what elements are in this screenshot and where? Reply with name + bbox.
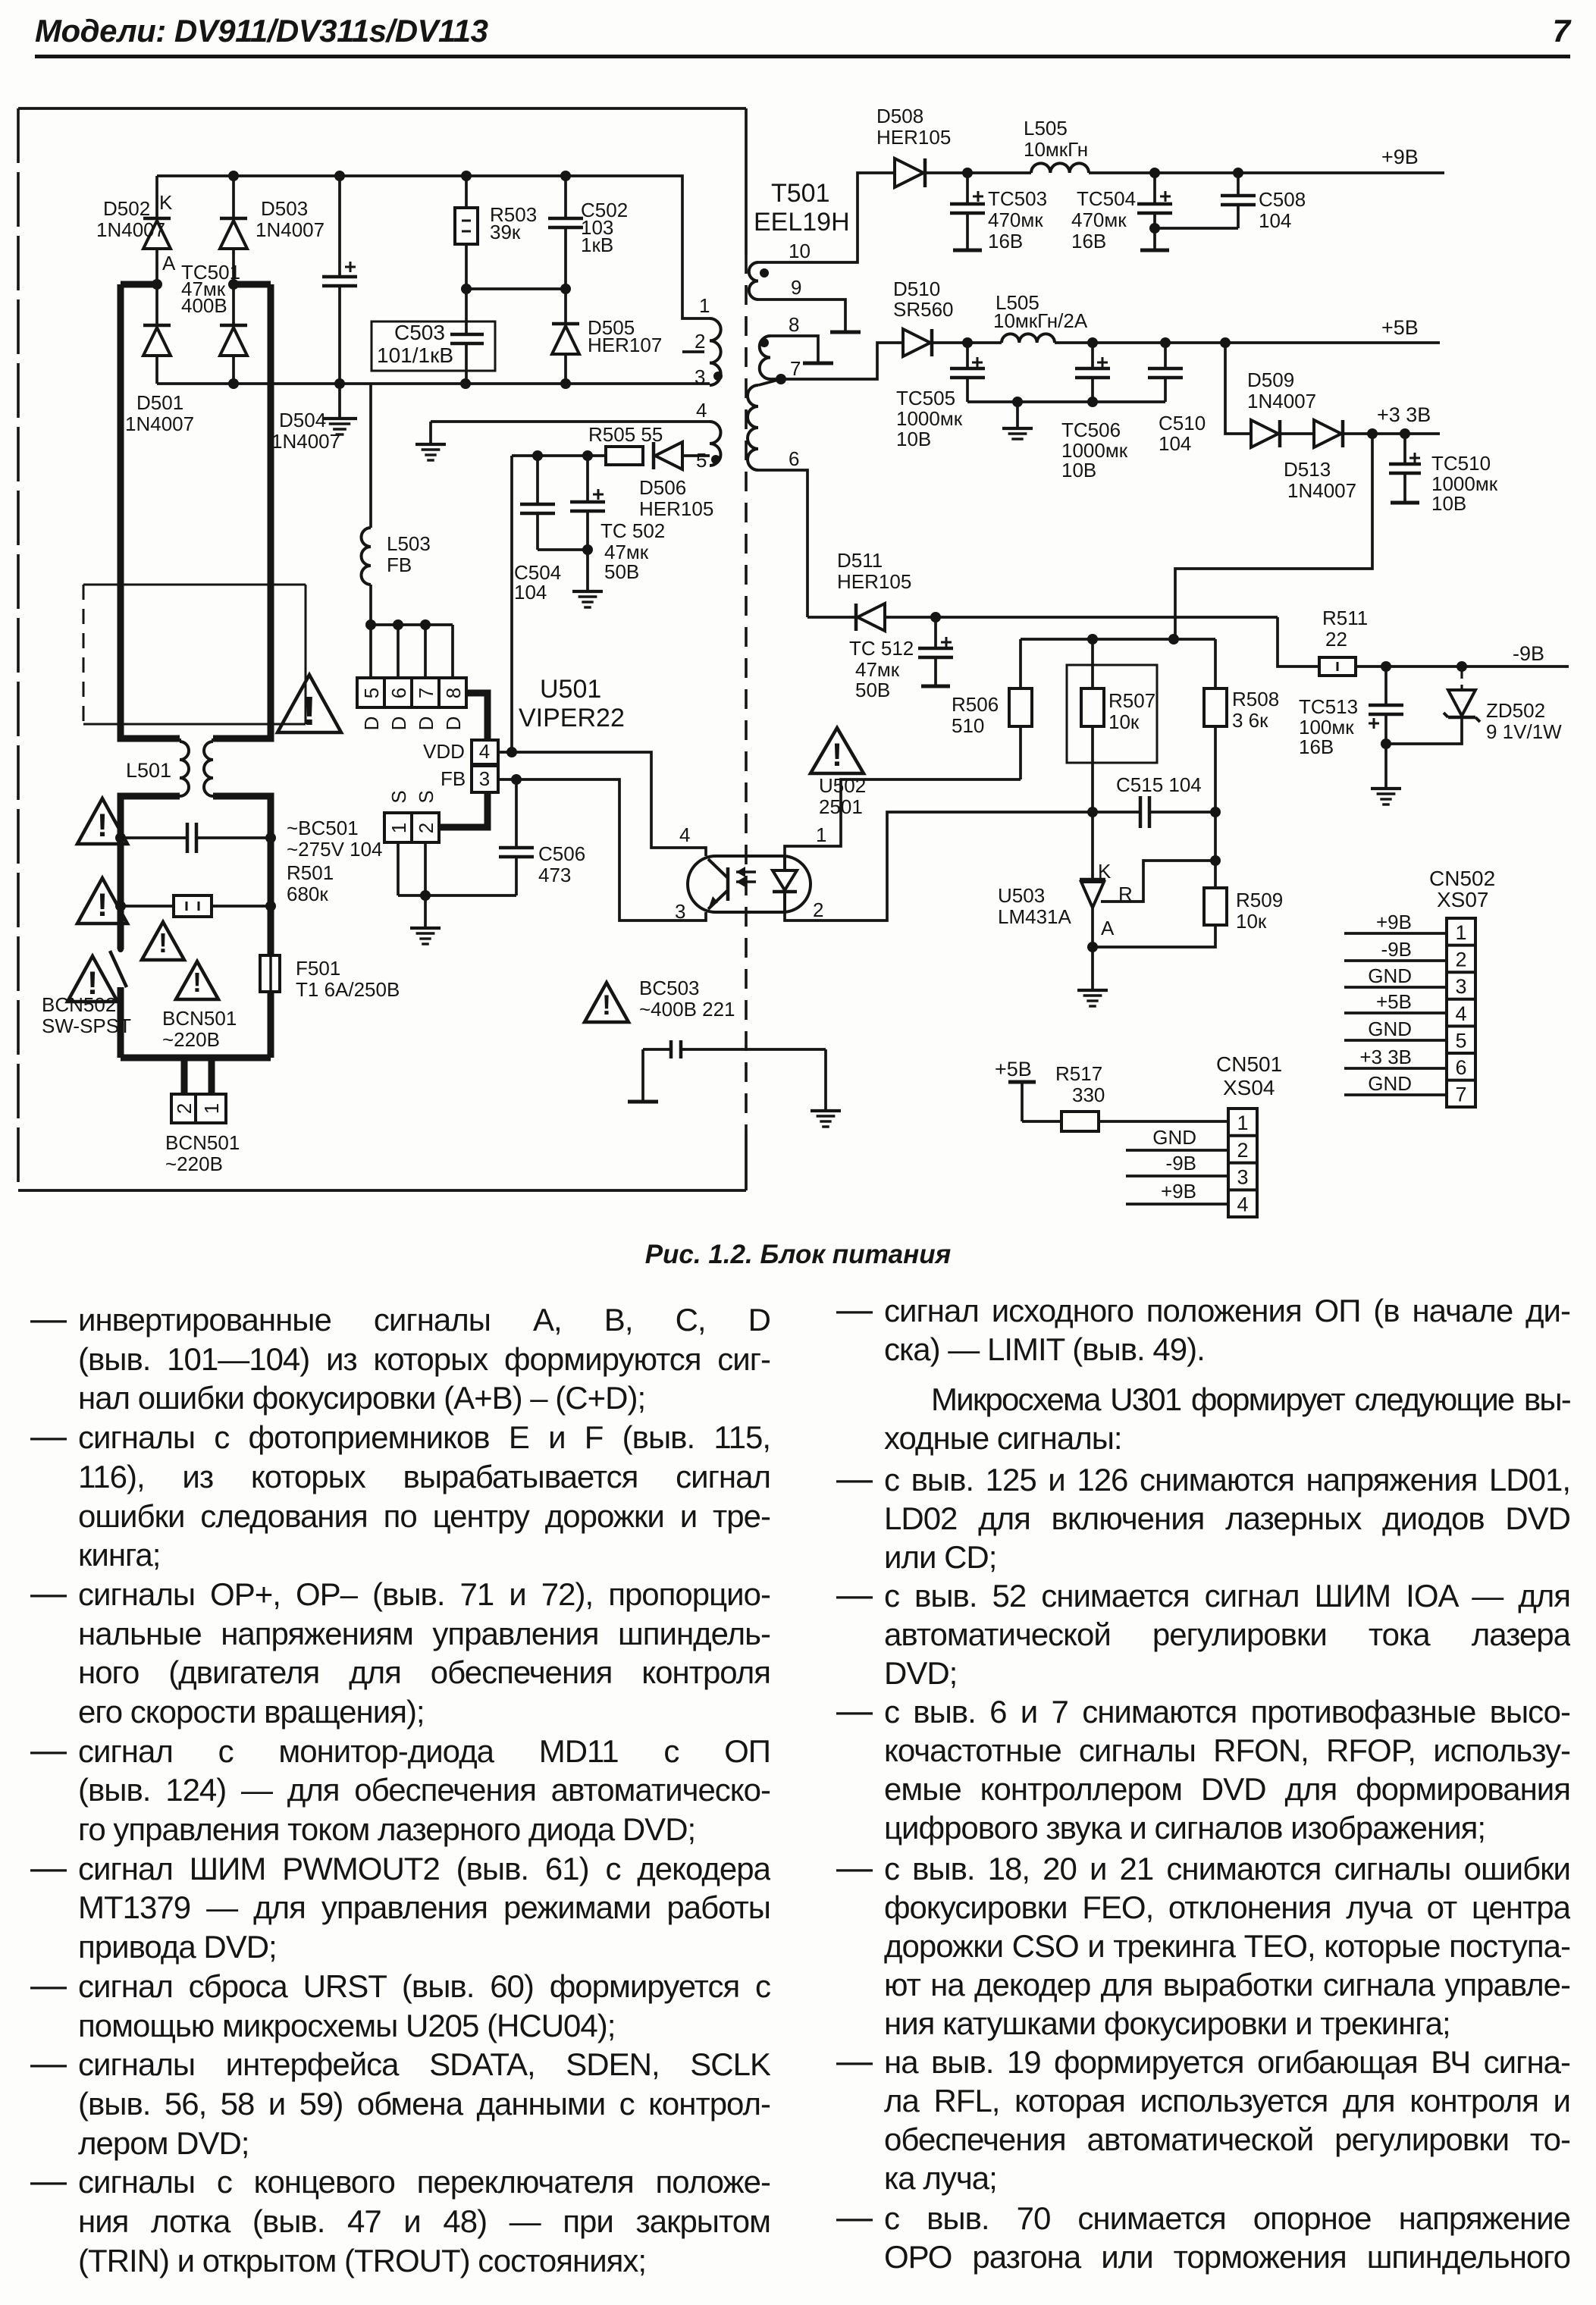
svg-text:D502: D502 <box>103 197 150 220</box>
svg-text:6: 6 <box>387 688 410 698</box>
wire mains line right (thick) <box>213 284 271 739</box>
resistor R507 10k (boxed) <box>1067 639 1157 812</box>
svg-text:BCN501: BCN501 <box>162 1007 237 1030</box>
svg-text:D: D <box>415 717 437 731</box>
svg-text:16В: 16В <box>1299 735 1334 758</box>
wire U501 drain-source loop (thick) <box>439 693 488 827</box>
svg-text:R511: R511 <box>1322 607 1368 629</box>
svg-text:D: D <box>387 717 410 731</box>
svg-text:7: 7 <box>415 688 437 698</box>
svg-text:104: 104 <box>1259 209 1291 232</box>
svg-text:9: 9 <box>791 276 801 299</box>
wire pin10 to D508 <box>758 173 895 262</box>
diode D513 1N4007 <box>1280 420 1440 502</box>
svg-text:104: 104 <box>514 581 547 604</box>
header rule <box>35 55 1570 58</box>
svg-text:1N4007: 1N4007 <box>271 430 340 453</box>
svg-text:D503: D503 <box>261 197 308 220</box>
svg-text:XS07: XS07 <box>1437 888 1489 911</box>
svg-text:BC503: BC503 <box>639 977 700 999</box>
svg-text:TC506: TC506 <box>1061 419 1121 441</box>
svg-text:8: 8 <box>789 313 799 336</box>
page number <box>1553 13 1570 49</box>
svg-text:R517: R517 <box>1055 1062 1102 1085</box>
svg-text:330: 330 <box>1072 1084 1105 1106</box>
terminator left of BC503 <box>628 1049 658 1102</box>
svg-text:7: 7 <box>1455 1084 1466 1106</box>
shunt regulator U503 LM431A <box>998 812 1133 952</box>
capacitor TC510 1000mk 10V <box>1389 434 1498 515</box>
svg-text:!: ! <box>87 965 98 1002</box>
svg-text:3: 3 <box>479 767 490 790</box>
svg-text:50В: 50В <box>855 679 890 701</box>
svg-text:4: 4 <box>696 399 707 422</box>
figure caption <box>0 1240 1596 1270</box>
inductor L505 10mkGn/2A <box>993 291 1088 343</box>
warning triangle near BC503 <box>585 983 629 1022</box>
ground at pin 4 line <box>415 422 446 460</box>
warning triangle near U502 <box>811 728 864 773</box>
svg-text:1N4007: 1N4007 <box>1287 479 1356 502</box>
svg-text:2: 2 <box>1237 1139 1248 1162</box>
svg-text:D513: D513 <box>1284 458 1331 481</box>
svg-text:3 6к: 3 6к <box>1232 709 1268 732</box>
svg-text:+9В: +9В <box>1161 1180 1196 1203</box>
IC U501 pin boxes 1-2 (S) <box>384 790 439 842</box>
resistor R509 10k <box>1093 812 1283 947</box>
capacitor C506 473 <box>499 779 585 895</box>
svg-text:CN502: CN502 <box>1429 867 1495 890</box>
svg-text:TC505: TC505 <box>896 387 955 409</box>
svg-text:GND: GND <box>1152 1126 1196 1149</box>
capacitor TC503 470mk 16V <box>950 173 1047 252</box>
svg-text:EEL19H: EEL19H <box>754 208 850 237</box>
wire VDD to opto pin4 <box>498 747 706 856</box>
connector CN501 XS04 <box>1126 1052 1282 1217</box>
svg-text:R508: R508 <box>1232 688 1279 710</box>
svg-text:-9В: -9В <box>1166 1152 1196 1174</box>
svg-text:1: 1 <box>200 1103 223 1114</box>
terminator at pin 9 <box>758 299 861 332</box>
svg-text:470мк: 470мк <box>988 209 1043 231</box>
svg-text:A: A <box>1101 917 1115 939</box>
svg-text:ZD502: ZD502 <box>1486 699 1545 722</box>
svg-text:9 1V/1W: 9 1V/1W <box>1486 720 1562 743</box>
svg-text:!: ! <box>193 967 202 998</box>
svg-text:+9В: +9В <box>1376 911 1412 933</box>
svg-text:2: 2 <box>1455 949 1466 971</box>
svg-text:4: 4 <box>479 740 490 763</box>
svg-text:~275V 104: ~275V 104 <box>287 838 383 861</box>
svg-text:~400В 221: ~400В 221 <box>639 998 735 1021</box>
svg-text:1: 1 <box>699 294 710 317</box>
wire opto LED cathode path (pin2) <box>785 812 1140 920</box>
terminator at pin 8 <box>770 336 833 363</box>
svg-text:L503: L503 <box>387 532 431 555</box>
svg-text:C506: C506 <box>538 842 585 865</box>
ground right of BC503 <box>811 1049 841 1127</box>
svg-text:GND: GND <box>1368 1018 1412 1040</box>
svg-text:R506: R506 <box>952 693 999 716</box>
wire R503-C502 junction row <box>461 284 571 294</box>
transformer T501 secondary winding pins 10-9 <box>749 240 811 299</box>
svg-text:XS04: XS04 <box>1223 1076 1275 1099</box>
svg-text:CN501: CN501 <box>1216 1052 1282 1076</box>
ground under U501 source <box>410 895 441 944</box>
svg-text:1кВ: 1кВ <box>581 234 613 256</box>
svg-text:C503: C503 <box>394 321 445 344</box>
ground under TC513 <box>1371 744 1401 804</box>
svg-text:HER105: HER105 <box>639 497 713 520</box>
diode D505 HER107 <box>552 289 662 384</box>
diode D509 1N4007 <box>1225 343 1316 447</box>
inductor L501 right winding <box>126 739 271 838</box>
svg-text:D: D <box>442 717 465 731</box>
wire +3.3V feedback to divider <box>1175 434 1372 639</box>
svg-text:D501: D501 <box>136 391 183 414</box>
warning triangle big (bridge area) <box>277 675 341 734</box>
svg-text:D510: D510 <box>893 278 940 300</box>
wire divider top bus <box>1021 634 1215 644</box>
node +3.3V junctions <box>1367 403 1431 439</box>
capacitor C504 104 <box>512 450 588 604</box>
wire opto LED anode path (pin1 to R506) <box>785 779 1021 856</box>
svg-text:2: 2 <box>415 823 437 833</box>
svg-text:4: 4 <box>679 823 690 846</box>
svg-text:16В: 16В <box>988 230 1023 252</box>
warning triangle 3 <box>67 956 118 1002</box>
svg-text:10: 10 <box>789 240 811 262</box>
svg-text:3: 3 <box>675 900 685 923</box>
svg-text:10В: 10В <box>1431 492 1466 515</box>
svg-text:5: 5 <box>696 449 707 472</box>
svg-text:!: ! <box>97 887 108 924</box>
wire bottom bus <box>157 382 710 385</box>
label +5V supply <box>995 1058 1036 1121</box>
resistor R501 680k <box>115 861 334 917</box>
svg-text:TC503: TC503 <box>988 187 1047 210</box>
svg-text:GND: GND <box>1368 1072 1412 1095</box>
ground under U503 <box>1077 947 1108 1006</box>
capacitor C510 104 <box>1148 343 1206 455</box>
IC U501 VIPER22 label <box>519 675 625 732</box>
wire U503 reference lead <box>1101 855 1221 902</box>
svg-text:R509: R509 <box>1236 889 1283 911</box>
svg-text:1: 1 <box>1237 1112 1248 1134</box>
svg-text:+5В: +5В <box>1381 316 1419 339</box>
wire pin 6 down to D511 <box>758 470 807 617</box>
svg-text:VDD: VDD <box>423 740 465 763</box>
svg-text:BCN502: BCN502 <box>42 993 116 1016</box>
resistor R503 39k <box>455 176 537 289</box>
node -9V junctions <box>1381 661 1467 672</box>
svg-text:BCN501: BCN501 <box>165 1131 240 1154</box>
wire to mains connector (thick) <box>121 1058 271 1094</box>
diode D502 1N4007 <box>96 176 176 284</box>
svg-text:F501: F501 <box>296 957 340 980</box>
svg-text:LM431A: LM431A <box>998 905 1071 928</box>
node +5V rail dots <box>962 337 1231 348</box>
capacitor TC506 1000mk 10V <box>1061 343 1128 481</box>
ground under +5V filter <box>1002 402 1033 439</box>
svg-text:4: 4 <box>1455 1002 1466 1025</box>
wire C503 bus to L503 <box>369 384 372 528</box>
transformer T501 EEL19H label <box>754 179 850 237</box>
svg-text:U503: U503 <box>998 884 1045 907</box>
svg-text:6: 6 <box>1455 1056 1466 1079</box>
wire AC taps (thick) <box>121 281 271 288</box>
diode D504 1N4007 <box>220 284 340 453</box>
svg-text:50В: 50В <box>604 560 639 583</box>
svg-text:~BC501: ~BC501 <box>287 817 359 839</box>
svg-text:39к: 39к <box>490 221 521 243</box>
svg-text:TC 502: TC 502 <box>600 519 665 542</box>
fuse F501 T1 6A/250B <box>260 906 400 1058</box>
svg-text:S: S <box>387 790 410 803</box>
svg-text:+9В: +9В <box>1381 146 1419 168</box>
IC U501 pin box 4 VDD <box>423 740 498 764</box>
svg-text:1: 1 <box>387 823 410 833</box>
svg-text:1N4007: 1N4007 <box>125 412 194 435</box>
svg-text:FB: FB <box>387 554 412 576</box>
svg-text:U502: U502 <box>819 774 866 797</box>
svg-text:D509: D509 <box>1247 368 1294 391</box>
svg-text:4: 4 <box>1237 1193 1248 1215</box>
diode D503 1N4007 <box>220 176 325 284</box>
resistor R505 55 <box>588 423 663 465</box>
svg-text:HER107: HER107 <box>588 334 662 356</box>
svg-text:104: 104 <box>1159 432 1191 455</box>
svg-text:400В: 400В <box>181 294 227 317</box>
svg-text:+3 3В: +3 3В <box>1359 1046 1412 1068</box>
svg-text:U501: U501 <box>540 675 601 704</box>
optocoupler U502 phototransistor <box>708 859 728 909</box>
resistor R506 510 <box>952 639 1032 779</box>
diode D511 HER105 <box>807 549 1278 631</box>
svg-text:3: 3 <box>1237 1166 1248 1189</box>
svg-text:TC510: TC510 <box>1431 452 1491 475</box>
capacitor C503 101/1kV (boxed) <box>372 289 495 384</box>
inductor L503 FB <box>362 528 431 625</box>
capacitor TC505 1000mk 10V <box>896 343 985 450</box>
svg-text:510: 510 <box>952 714 984 737</box>
svg-text:FB: FB <box>441 767 466 790</box>
svg-text:C515 104: C515 104 <box>1116 773 1202 796</box>
svg-text:D506: D506 <box>639 476 686 499</box>
svg-text:K: K <box>159 191 173 214</box>
svg-text:5: 5 <box>360 688 383 698</box>
resistor R511 22 <box>1278 607 1569 676</box>
svg-text:S: S <box>415 790 437 803</box>
node junction dots on top bus <box>228 171 571 181</box>
svg-text:K: K <box>1098 860 1112 883</box>
svg-text:R501: R501 <box>287 861 334 884</box>
svg-text:D504: D504 <box>279 409 326 431</box>
capacitor C508 104 <box>1155 173 1306 232</box>
wire FB to opto pin3 <box>498 774 706 920</box>
svg-text:C508: C508 <box>1259 188 1306 211</box>
wire top DC bus <box>157 176 710 318</box>
optocoupler U502 LED <box>736 856 797 912</box>
warning triangle 5 <box>176 961 218 999</box>
node AC input junctions <box>152 279 239 290</box>
svg-text:R507: R507 <box>1108 689 1155 712</box>
svg-text:2: 2 <box>695 330 705 353</box>
ground under TC501 <box>322 384 357 434</box>
wire U501 drain bus <box>365 619 453 678</box>
connector BCN501 ~220V <box>165 1094 240 1175</box>
svg-text:-9В: -9В <box>1381 938 1412 961</box>
wire thick left BC501-R501 <box>121 838 271 906</box>
diode D506 HER105 <box>639 442 713 520</box>
svg-text:D511: D511 <box>837 549 883 572</box>
capacitor TC502 47mk 50V <box>570 450 665 583</box>
svg-text:16В: 16В <box>1071 230 1106 252</box>
wire +9V rail <box>925 146 1444 173</box>
optocoupler U502 2501 body <box>675 774 866 923</box>
node +9V rail dots <box>962 168 1243 178</box>
svg-text:47мк: 47мк <box>855 658 900 681</box>
svg-text:10к: 10к <box>1236 910 1267 933</box>
svg-text:HER105: HER105 <box>876 126 951 149</box>
capacitor C502 103 1kV <box>548 176 628 289</box>
svg-text:22: 22 <box>1325 628 1347 651</box>
capacitor TC504 470mk 16V <box>1071 173 1172 252</box>
schematic figure <box>0 0 1596 1262</box>
svg-text:3: 3 <box>1455 975 1466 998</box>
capacitor BC503 ~400V 221 <box>639 977 826 1058</box>
IC U501 pin box 3 FB <box>441 766 498 792</box>
svg-text:2: 2 <box>173 1103 196 1114</box>
transformer T501 secondary winding pin 6 <box>748 379 799 470</box>
wire VDD supply line <box>510 456 513 752</box>
svg-text:TC 512: TC 512 <box>849 637 914 660</box>
svg-text:101/1кВ: 101/1кВ <box>377 343 453 367</box>
switch BCN502 SW-SPST <box>42 906 131 1058</box>
svg-text:C510: C510 <box>1159 412 1206 434</box>
ground under TC502 <box>572 550 603 607</box>
svg-text:1N4007: 1N4007 <box>96 218 165 241</box>
warning triangle 4 <box>142 922 184 960</box>
svg-text:2501: 2501 <box>819 795 863 818</box>
node junction dots on bottom bus <box>228 378 571 389</box>
capacitor BC501 ~275V 104 <box>115 817 383 861</box>
svg-text:10к: 10к <box>1108 710 1140 733</box>
svg-text:3: 3 <box>695 365 705 388</box>
svg-text:D508: D508 <box>876 105 923 127</box>
diode D501 1N4007 <box>125 284 194 435</box>
svg-text:1000мк: 1000мк <box>896 407 963 430</box>
svg-text:10мкГн: 10мкГн <box>1024 138 1088 161</box>
capacitor TC512 47mk 50V <box>849 612 953 701</box>
svg-text:T1 6А/250В: T1 6А/250В <box>296 978 400 1001</box>
svg-text:2: 2 <box>813 898 823 921</box>
warning triangle 1 <box>77 798 127 844</box>
svg-text:A: A <box>162 252 176 274</box>
svg-text:10В: 10В <box>1061 459 1096 481</box>
svg-text:5: 5 <box>1455 1029 1466 1052</box>
page header model list <box>35 13 488 49</box>
svg-text:1: 1 <box>816 823 826 846</box>
wire +5V rail <box>932 316 1440 343</box>
diode D510 SR560 <box>893 278 954 356</box>
svg-text:SW-SPST: SW-SPST <box>42 1015 131 1037</box>
diode D508 HER105 <box>876 105 951 187</box>
svg-text:1N4007: 1N4007 <box>256 218 325 241</box>
svg-text:HER105: HER105 <box>837 570 911 593</box>
node C515 junctions <box>1087 807 1221 817</box>
inductor L505 10mkGn <box>1024 117 1089 173</box>
svg-text:680к: 680к <box>287 883 328 905</box>
svg-text:+5В: +5В <box>1376 990 1412 1013</box>
svg-text:VIPER22: VIPER22 <box>519 704 625 732</box>
svg-text:1N4007: 1N4007 <box>1247 390 1316 412</box>
inductor L501 left winding <box>121 739 189 838</box>
svg-text:!: ! <box>97 808 108 844</box>
transformer T501 secondary winding pins 8-7 <box>760 313 801 380</box>
wire +5V filter bottom bus <box>967 397 1165 407</box>
svg-text:D: D <box>360 717 383 731</box>
svg-text:!: ! <box>158 927 168 958</box>
svg-text:470мк: 470мк <box>1071 209 1127 231</box>
svg-text:7: 7 <box>790 357 801 380</box>
shield box around L501 <box>83 585 306 724</box>
resistor R517 330 <box>1022 1062 1228 1131</box>
svg-text:10В: 10В <box>896 428 931 450</box>
svg-text:L505: L505 <box>1024 117 1068 140</box>
svg-text:L501: L501 <box>126 759 171 782</box>
wire pin 7 to D510 <box>770 343 903 384</box>
svg-text:~220В: ~220В <box>165 1152 223 1175</box>
schematic frame (power supply block boundary) <box>18 108 746 1190</box>
svg-text:R505 55: R505 55 <box>588 423 663 446</box>
svg-text:8: 8 <box>442 688 465 698</box>
transformer T501 primary winding pins 1-2-3 <box>682 294 723 388</box>
svg-text:!: ! <box>303 688 316 734</box>
resistor R508 3.6k <box>1204 639 1279 812</box>
svg-text:1: 1 <box>1455 921 1466 944</box>
wire source pins to ground bus <box>398 842 516 901</box>
svg-text:10мкГн/2А: 10мкГн/2А <box>993 309 1088 332</box>
svg-text:!: ! <box>602 989 611 1021</box>
capacitor TC501 47mk 400V <box>181 176 357 384</box>
svg-text:-9В: -9В <box>1513 642 1544 665</box>
connector CN502 XS07 <box>1344 867 1495 1107</box>
warning triangle 2 <box>77 878 127 924</box>
svg-text:+5В: +5В <box>995 1058 1032 1080</box>
svg-text:SR560: SR560 <box>893 298 954 321</box>
svg-text:~220В: ~220В <box>162 1028 220 1051</box>
svg-text:6: 6 <box>789 447 799 470</box>
svg-text:TC504: TC504 <box>1077 187 1136 210</box>
svg-text:GND: GND <box>1368 964 1412 987</box>
svg-text:+3 3В: +3 3В <box>1377 403 1431 426</box>
svg-text:TC513: TC513 <box>1299 695 1358 718</box>
zener diode ZD502 9.1V/1W <box>1386 671 1562 744</box>
transformer T501 aux winding pins 4-5 <box>431 399 721 472</box>
svg-text:T501: T501 <box>771 179 830 208</box>
label BCN501 ~220V (upper) <box>162 1007 237 1051</box>
capacitor C515 104 <box>1116 773 1215 828</box>
IC U501 VIPER22 pin boxes 5-8 (D) <box>357 678 466 730</box>
wire mains line left (thick) <box>121 284 180 739</box>
svg-text:473: 473 <box>538 864 571 886</box>
svg-text:!: ! <box>832 737 842 773</box>
capacitor TC513 100mk 16V <box>1299 666 1403 758</box>
